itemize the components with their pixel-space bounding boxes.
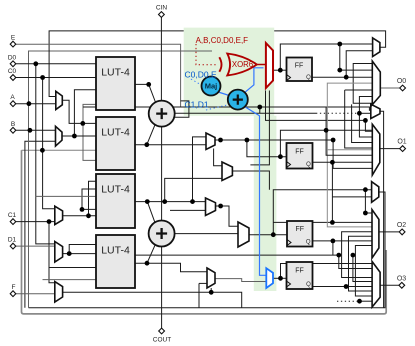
wire O1 [380, 148, 400, 150]
pin A connector [10, 101, 16, 107]
junction (365.4,120.4) [363, 118, 368, 123]
wire LUT3 in1 riser [89, 181, 97, 216]
junction (259.8,107) [257, 105, 262, 110]
plus circle blue [228, 90, 248, 110]
svg-text:FF: FF [295, 149, 304, 156]
LUT-4 block 2 [96, 117, 135, 170]
gray U top stub into LUT2 [22, 149, 97, 151]
svg-text:C0: C0 [8, 68, 17, 75]
wire M4 dotted select [337, 300, 358, 302]
big mux M1 [372, 61, 380, 105]
junction (333.1,140) [331, 138, 336, 143]
svg-text:E: E [11, 35, 16, 42]
junction (338.8,255.1) [336, 253, 341, 258]
wire LUT4 in1 riser [69, 245, 96, 254]
wire MA out to FF2 [215, 140, 287, 157]
junction (146.8,144.7) [144, 142, 149, 147]
wire carry adder2-COUT [161, 247, 163, 330]
input mux C1 [55, 206, 63, 224]
wire Q3 tap down [332, 241, 334, 255]
wire blue mux out to FF4 [273, 277, 287, 279]
wire FF1 bypass [280, 44, 372, 70]
adder 1 [149, 101, 175, 127]
wire LUT2 out [135, 144, 206, 146]
big mux M3 [372, 210, 379, 258]
svg-text:A: A [10, 94, 15, 101]
wire FF4 bypass [281, 264, 373, 279]
wire MB in2 riser [165, 178, 222, 201]
wire FF1 Q out [313, 76, 373, 78]
junction (339.8,44) [337, 42, 342, 47]
pin F connector [10, 291, 16, 297]
wire loop C left riser / XOR6 feed [29, 51, 213, 308]
wire E jog branch [174, 101, 189, 117]
FF2 [287, 143, 313, 169]
wire C1 vertical to F-mux [49, 222, 55, 283]
wire B-mux out to LUT2 [62, 135, 96, 137]
mid mux MC [206, 198, 216, 216]
junction (326.1,130.3) [324, 128, 329, 133]
junction (365.4,213) [363, 211, 368, 216]
wire C0 vertical to C1-mux [43, 78, 55, 209]
wire FF4 Q out [313, 286, 373, 288]
wire E stub down to LUT2 in4 [83, 107, 96, 160]
pin D0 connector [10, 61, 16, 67]
input mux F [55, 282, 63, 302]
svg-text:FF: FF [295, 63, 304, 70]
svg-text:LUT-4: LUT-4 [101, 127, 130, 139]
junction (220.5,140) [218, 138, 223, 143]
wire CIN vertical [160, 17, 162, 101]
mid mux ME [207, 268, 215, 288]
wire FF2 Q out [313, 161, 373, 163]
junction (332.4,162.3) [330, 160, 335, 165]
svg-text:Q: Q [306, 75, 311, 81]
pin E connector [10, 41, 16, 47]
wire D1-mux out to LUT4 [63, 253, 96, 255]
wire MD out to FF3 [249, 234, 287, 236]
pin O0 connector [400, 85, 406, 91]
wire LUT4 out diag to adder2 [147, 245, 155, 264]
junction (280.5,278.3) [278, 276, 283, 281]
wire LUT3 out diag to adder2 [147, 202, 155, 223]
wire FF2 bypass [280, 130, 372, 156]
wire MB in1 [214, 149, 222, 166]
wire E [13, 44, 181, 107]
junction (147.3,201.6) [145, 199, 150, 204]
adder 2 [149, 221, 175, 247]
red mux out [257, 64, 266, 66]
junction (280.4,156.7) [278, 154, 283, 159]
big mux M4 [372, 262, 380, 308]
wire B-mux up to LUT1 in3 [74, 90, 96, 136]
wire red mux out to FF1 [273, 69, 287, 71]
svg-text:Q: Q [306, 282, 311, 288]
blue mux (carry bypass) [266, 268, 273, 288]
wire LUT3 in2/in4 C-shape [82, 189, 96, 209]
big mux M2 [372, 124, 380, 175]
wire LUT3 in3 [36, 195, 96, 197]
green highlight region [184, 28, 277, 291]
svg-text:C1: C1 [8, 212, 17, 219]
svg-text:C0,D0,E: C0,D0,E [185, 70, 217, 80]
wire C1 [13, 221, 55, 223]
svg-text:XOR6: XOR6 [232, 60, 253, 69]
svg-text:FF: FF [296, 226, 305, 233]
pin D1 connector [10, 243, 16, 249]
wire LUT2 out diag to adder1 [147, 125, 155, 145]
junction (359.5,301.2) [357, 299, 362, 304]
svg-text:D0: D0 [8, 54, 17, 61]
mid mux MA [206, 133, 215, 150]
wire F [13, 293, 55, 295]
wire FF3 Q out [313, 240, 373, 242]
pin B connector [10, 127, 16, 133]
junction (147,263.2) [145, 261, 150, 266]
wire loop C bottom [29, 192, 386, 308]
wire E branch right to carry logic and smux2 [83, 107, 371, 110]
svg-text:D1: D1 [8, 237, 17, 244]
LUT-4 block 4 [96, 235, 135, 288]
pin C0 connector [10, 75, 16, 81]
junction (365.4,189.7) [363, 187, 368, 192]
junction (88.5,215.8) [86, 213, 91, 218]
wire M2 staircase [326, 107, 372, 155]
junction (28.9,103.7) [27, 101, 32, 106]
wire adder2 out to MD [175, 233, 238, 235]
pin O1 connector [400, 146, 406, 152]
wire LUT1 out [135, 84, 156, 102]
LUT-4 block 1 [96, 57, 135, 110]
wire M1 staircase C3 [345, 89, 373, 91]
blue Maj to plus link [218, 92, 229, 96]
junction (339.8,70.1) [337, 68, 342, 73]
wire ME out to blue mux [215, 279, 266, 282]
small mux3 [372, 182, 379, 203]
wire FF3 tap to smux3 [273, 190, 371, 235]
Maj circle [202, 77, 221, 96]
wire MA in1 riser [193, 137, 207, 202]
pin O2 connector [399, 229, 405, 235]
wire ME in2 [199, 282, 207, 284]
FF3 [287, 221, 313, 247]
input mux A [56, 91, 63, 109]
small mux2 [371, 104, 380, 118]
wire ME select stub [210, 288, 212, 292]
wire vertical from red mux bottom [250, 91, 269, 165]
junction (49,221.6) [47, 219, 52, 224]
junction (148.7,84.4) [146, 82, 151, 87]
wire F-mux out (select line) [63, 292, 242, 307]
wire LUT4 in3 [49, 267, 96, 269]
input mux D1 [55, 242, 63, 263]
wire A [13, 103, 56, 105]
wire carry adder1-adder2 [161, 127, 163, 221]
junction (74.4,136) [72, 134, 77, 139]
input mux B [56, 126, 63, 146]
junction (346.1,286.5) [344, 284, 349, 289]
mid mux MD [238, 222, 249, 247]
red dotted label lead [196, 44, 216, 65]
wire D0 vertical to D1-mux [36, 64, 55, 244]
svg-text:O3: O3 [397, 275, 406, 282]
small mux1 (top) [373, 38, 380, 57]
wire B [13, 129, 56, 131]
wire C1-mux out to LUT3 [63, 215, 96, 217]
wire B-mux second input riser [25, 141, 56, 307]
junction (69.2,253.6) [67, 251, 72, 256]
pin COUT connector [159, 328, 165, 334]
FF4 [287, 262, 313, 289]
blue dotted label leads [191, 79, 203, 86]
junction (359.4,113.3) [357, 111, 362, 116]
svg-text:FF: FF [295, 268, 304, 275]
junction (280.3,70.2) [278, 68, 283, 73]
wire M1 staircase C1 [353, 64, 372, 104]
wire loop B (smux2 feedback to B-mux via bottom) [380, 111, 384, 307]
svg-text:O0: O0 [397, 78, 406, 85]
red mux [266, 43, 273, 88]
wire E stub to LUT1 in4 [83, 104, 96, 107]
wire smux1 tap of bypass [340, 44, 373, 70]
FF1 [287, 58, 313, 82]
junction (82.8,123.4) [80, 121, 85, 126]
wire LUT4 out [135, 263, 207, 272]
wire M3 staircase to M4 [342, 232, 373, 278]
svg-text:F: F [12, 284, 16, 291]
wire smux3 in1 tap to M3 [365, 190, 372, 213]
wire adder1 out [175, 112, 316, 114]
pin O3 connector [399, 282, 405, 288]
junction (332.4,222.4) [330, 220, 335, 225]
wire loop A (top feedback) [274, 31, 385, 47]
wire O0 [380, 87, 399, 89]
wire LUT3 out [135, 201, 206, 203]
wire FF2 Q tap to smux3 [331, 162, 333, 222]
wire long mid line to M4 taps [135, 254, 339, 256]
junction (42.6,77.5) [40, 75, 45, 80]
wire FF3 bypass [273, 221, 372, 223]
svg-text:Q: Q [306, 162, 311, 168]
svg-text:Maj: Maj [205, 82, 218, 91]
junction (164.7,201.6) [162, 199, 167, 204]
svg-text:LUT-4: LUT-4 [101, 245, 130, 257]
mid mux MB [222, 162, 232, 181]
junction (35.8,63.8) [33, 61, 38, 66]
junction (332.9,240.9) [331, 239, 336, 244]
svg-text:B: B [11, 121, 15, 128]
wire O3 [380, 284, 399, 286]
wire C0 [13, 77, 96, 79]
svg-text:O2: O2 [397, 222, 406, 229]
XOR6 gate [219, 54, 256, 76]
wire MC out to MD [216, 206, 239, 226]
junction (82,209.4) [80, 207, 85, 212]
svg-text:C1,D1: C1,D1 [185, 100, 209, 110]
LUT-4 block 3 [96, 174, 135, 228]
junction (273.3,234.7) [271, 232, 276, 237]
wire M1 gray input + long gray vertical to M2/M3 [327, 83, 372, 227]
pin CIN connector [159, 12, 165, 18]
svg-text:CIN: CIN [156, 5, 168, 12]
wire adder1 out dotted section [316, 112, 358, 114]
junction (346.2,77.2) [344, 75, 349, 80]
wire red mux bottom to smux2 [266, 91, 366, 121]
svg-text:LUT-4: LUT-4 [101, 184, 130, 196]
svg-text:A,B,C0,D0,E,F: A,B,C0,D0,E,F [196, 36, 249, 45]
wire LUT4 in4 [43, 279, 97, 281]
svg-text:COUT: COUT [153, 337, 171, 344]
junction (220.6,206) [218, 204, 223, 209]
junction (42.4,150.3) [40, 148, 45, 153]
wire O2 [379, 231, 400, 233]
blue carry path down [245, 107, 267, 276]
wire smux1 in2 from Q [346, 51, 372, 77]
wire M1 staircase C2 [359, 97, 372, 114]
blue carry path up [245, 68, 264, 93]
wire D1 [13, 245, 55, 247]
wire A-mux out down to LUT2 in1 [62, 100, 96, 123]
junction (352.9,255.1) [351, 253, 356, 258]
wire MC in2 [170, 209, 206, 211]
svg-text:Q: Q [306, 240, 311, 246]
svg-text:LUT-4: LUT-4 [101, 67, 130, 79]
junction (29.9,130.3) [28, 128, 33, 133]
junction (192.5,201.6) [190, 199, 195, 204]
junction (246.9,140) [245, 138, 250, 143]
junction (211.2,292.3) [209, 290, 214, 295]
svg-text:O1: O1 [397, 139, 406, 146]
pin C1 connector [10, 219, 16, 225]
wire MB out down to smux3 line [232, 171, 269, 190]
wire D0 [13, 63, 96, 65]
gray U wire (slice boundary look) [22, 150, 387, 314]
junction dots group [27, 42, 368, 304]
